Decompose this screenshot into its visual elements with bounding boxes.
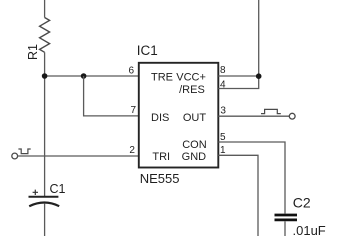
capacitor C1 <box>29 196 59 198</box>
svg-text:6: 6 <box>128 66 134 77</box>
svg-text:8: 8 <box>220 65 226 76</box>
resistor R1 <box>40 18 50 53</box>
wire trigger to pin 2 <box>18 155 139 157</box>
svg-text:.01uF: .01uF <box>293 223 326 236</box>
output pulse symbol <box>261 109 281 113</box>
wire pin 3 output <box>218 115 289 117</box>
svg-text:CON: CON <box>182 139 207 151</box>
wire node A down to C1 (crosses trigger wire, no junction) <box>44 76 46 196</box>
wire C2 to bottom edge <box>284 221 286 236</box>
svg-text:2: 2 <box>129 145 135 156</box>
op IC1 NE555 box <box>139 63 219 168</box>
wire pin 1 to bottom edge <box>218 155 258 236</box>
svg-text:7: 7 <box>130 105 136 116</box>
svg-text:1: 1 <box>220 145 226 156</box>
wire pin 5 to C2 <box>218 142 285 214</box>
wire VCC top to R1 <box>44 0 46 18</box>
svg-text:NE555: NE555 <box>140 171 180 186</box>
C1 plus sign <box>33 190 38 195</box>
wire node B to pin 7 <box>84 76 139 116</box>
svg-text:IC1: IC1 <box>137 43 158 58</box>
wire pin 8 <box>218 75 258 77</box>
wire C1 to bottom edge <box>44 204 46 236</box>
wire VCC top right <box>258 0 260 76</box>
svg-text:R1: R1 <box>26 44 40 60</box>
junction node B <box>81 73 87 79</box>
wire node A to pin 6 <box>45 75 139 77</box>
junction node A <box>42 73 48 79</box>
capacitor C2 <box>275 214 298 217</box>
svg-text:TRI: TRI <box>152 151 170 163</box>
svg-text:OUT: OUT <box>183 112 207 124</box>
svg-text:DIS: DIS <box>151 112 169 124</box>
svg-text:GND: GND <box>182 151 207 163</box>
trigger pulse symbol <box>18 149 30 154</box>
svg-text:/RES: /RES <box>179 84 205 96</box>
output terminal <box>289 113 295 119</box>
wire pin 4 <box>218 76 258 89</box>
svg-text:3: 3 <box>220 106 226 117</box>
junction node VCC <box>256 73 262 79</box>
svg-text:TRE: TRE <box>151 72 173 84</box>
svg-text:VCC+: VCC+ <box>176 72 206 84</box>
svg-text:C2: C2 <box>293 195 311 211</box>
trigger input terminal <box>12 153 18 159</box>
svg-text:C1: C1 <box>50 182 66 196</box>
wire R1 to node A <box>44 52 46 76</box>
